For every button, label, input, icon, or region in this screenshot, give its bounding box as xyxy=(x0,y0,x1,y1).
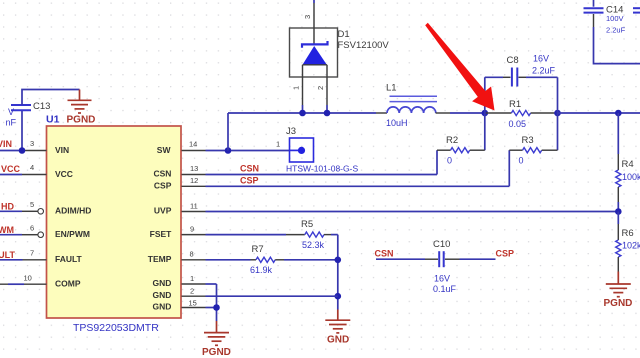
node junction pin2/GND xyxy=(335,293,342,300)
resistor R3 left pin xyxy=(509,149,522,151)
resistor R4 bottom pin xyxy=(617,187,619,202)
svg-text:PGND: PGND xyxy=(202,347,231,358)
connector J3 box xyxy=(290,138,314,162)
red annotation arrow xyxy=(425,23,494,111)
resistor R4 top pin xyxy=(617,154,619,170)
svg-text:3: 3 xyxy=(303,15,312,19)
wire GND net riser xyxy=(337,235,339,310)
resistor R2 zigzag xyxy=(451,148,470,153)
ground PGND bottom symbol xyxy=(204,321,229,345)
pin 6 inversion bubble xyxy=(38,232,44,238)
connector J3 pad dot xyxy=(298,147,305,154)
svg-text:J3: J3 xyxy=(286,126,296,137)
resistor R2 left pin xyxy=(437,149,451,151)
svg-text:FSV12100V: FSV12100V xyxy=(338,40,390,51)
pin 5 stub xyxy=(22,210,38,212)
wire FAULT net stub xyxy=(0,259,23,261)
svg-text:13: 13 xyxy=(190,164,198,173)
resistor R7 right wire xyxy=(284,259,338,261)
op-amp U1 IC body TPS922053DMTR xyxy=(47,126,182,318)
capacitor C10 plates xyxy=(439,251,444,267)
svg-text:0.1uF: 0.1uF xyxy=(433,284,457,294)
svg-text:14: 14 xyxy=(189,140,197,149)
capacitor C8 left pin xyxy=(503,76,511,78)
svg-text:R1: R1 xyxy=(509,99,521,110)
svg-text:102k: 102k xyxy=(622,241,640,251)
resistor R4 bottom wire xyxy=(617,202,619,212)
capacitor C13 plates xyxy=(11,105,31,110)
svg-text:1: 1 xyxy=(190,274,194,283)
capacitor C8 left wire xyxy=(485,76,503,78)
svg-text:10uH: 10uH xyxy=(386,118,408,128)
svg-text:VIN: VIN xyxy=(0,139,12,149)
svg-text:100k: 100k xyxy=(622,172,640,182)
svg-text:TPS922053DMTR: TPS922053DMTR xyxy=(73,322,159,334)
svg-text:D1: D1 xyxy=(338,29,350,40)
svg-text:C8: C8 xyxy=(507,55,519,66)
svg-text:7: 7 xyxy=(30,249,34,258)
wire PGND riser xyxy=(216,284,218,321)
resistor R1 zigzag xyxy=(511,110,530,115)
resistor R6 bottom pin xyxy=(617,257,619,272)
svg-text:nF: nF xyxy=(5,118,16,128)
capacitor C14 bottom pin xyxy=(593,14,595,27)
wire SW riser to bus xyxy=(227,113,229,151)
resistor R7 wire from TEMP xyxy=(206,259,251,261)
diode D1 triangle xyxy=(303,46,327,65)
node junction D1 pin1 xyxy=(299,110,306,117)
wire C10 left xyxy=(376,258,425,260)
wire COMP net stub xyxy=(8,283,24,285)
svg-text:3: 3 xyxy=(30,139,34,148)
svg-text:HD: HD xyxy=(1,202,14,212)
svg-text:2.2uF: 2.2uF xyxy=(606,26,626,35)
wire CSN row xyxy=(206,174,438,176)
svg-text:GND: GND xyxy=(153,290,172,300)
wire CSP row xyxy=(206,185,510,187)
wire L1 left pin xyxy=(376,112,387,114)
pin 3 stub xyxy=(25,150,47,152)
svg-text:UVP: UVP xyxy=(154,206,172,216)
diode D1 body box xyxy=(290,28,338,77)
ground PGND right symbol xyxy=(606,272,631,297)
pin 10 stub xyxy=(0,283,47,285)
svg-text:FAULT: FAULT xyxy=(55,254,83,264)
resistor R4 zigzag xyxy=(616,170,621,187)
pin 8 stub xyxy=(182,259,206,261)
svg-text:52.3k: 52.3k xyxy=(302,240,325,250)
resistor R5 right wire xyxy=(331,234,338,236)
wire ADIM net stub xyxy=(0,210,22,212)
wire C10 right xyxy=(460,258,496,260)
svg-text:1: 1 xyxy=(292,86,301,90)
pin 12 stub xyxy=(182,185,206,187)
svg-text:TEMP: TEMP xyxy=(148,254,172,264)
diode D1 pin 1 wire xyxy=(302,65,304,105)
svg-text:EN/PWM: EN/PWM xyxy=(55,229,90,239)
pin 13 stub xyxy=(182,174,206,176)
svg-text:PGND: PGND xyxy=(604,298,633,309)
wire SW to J3 xyxy=(206,150,290,152)
svg-text:10: 10 xyxy=(24,274,32,283)
wire GND pin15 row xyxy=(206,307,217,309)
node junction UVP/R4 xyxy=(615,208,622,215)
svg-text:VCC: VCC xyxy=(55,169,73,179)
node junction R1 left xyxy=(482,110,489,117)
node junction R1 right xyxy=(554,110,561,117)
pin 9 stub xyxy=(182,234,206,236)
svg-text:0: 0 xyxy=(519,156,524,166)
resistor R7 zigzag xyxy=(256,257,275,262)
resistor R5 wire from FSET xyxy=(206,234,287,236)
svg-text:CSN: CSN xyxy=(240,164,259,174)
svg-text:PGND: PGND xyxy=(67,115,96,126)
svg-text:4: 4 xyxy=(30,163,34,172)
svg-text:VCC: VCC xyxy=(1,164,21,174)
resistor R6 top pin xyxy=(617,224,619,240)
svg-text:5: 5 xyxy=(30,200,34,209)
svg-text:R3: R3 xyxy=(522,135,534,146)
diode D1 anode bar xyxy=(303,64,328,66)
capacitor C8 right riser xyxy=(557,77,559,150)
svg-text:0: 0 xyxy=(447,156,452,166)
ground PGND top-left xyxy=(68,90,92,114)
pin 5 inversion bubble xyxy=(38,209,44,215)
svg-text:L1: L1 xyxy=(386,83,397,94)
svg-text:ULT: ULT xyxy=(0,250,16,260)
svg-text:12: 12 xyxy=(190,176,198,185)
resistor R1 right pin xyxy=(531,112,557,114)
inductor L1 humps xyxy=(387,107,436,113)
capacitor C8 plates xyxy=(512,68,517,87)
resistor R5 left pin xyxy=(286,234,305,236)
node junction SW riser xyxy=(225,147,232,154)
inductor L1 core bars xyxy=(390,96,438,101)
capacitor C8 right pin xyxy=(519,76,527,78)
svg-text:15: 15 xyxy=(189,299,197,308)
svg-text:9: 9 xyxy=(190,225,194,234)
svg-text:11: 11 xyxy=(190,202,198,211)
resistor R5 right pin xyxy=(324,234,331,236)
svg-text:CSN: CSN xyxy=(153,169,171,179)
capacitor C8 right wire xyxy=(526,76,558,78)
resistor R5 zigzag xyxy=(305,232,324,237)
resistor R3 right pin xyxy=(542,149,558,151)
wire C14 down and right xyxy=(594,27,640,64)
svg-text:HTSW-101-08-G-S: HTSW-101-08-G-S xyxy=(286,164,358,174)
resistor R6 top wire xyxy=(617,212,619,225)
svg-text:SW: SW xyxy=(157,145,172,155)
capacitor C8 left riser xyxy=(484,77,486,150)
svg-text:FSET: FSET xyxy=(150,229,173,239)
resistor R2 left riser xyxy=(436,150,438,174)
svg-text:61.9k: 61.9k xyxy=(250,265,273,275)
pin 11 stub xyxy=(182,211,206,213)
svg-text:R2: R2 xyxy=(446,135,458,146)
wire L1 right pin xyxy=(436,112,450,114)
pin 14 stub xyxy=(182,150,206,152)
svg-text:100V: 100V xyxy=(606,14,624,23)
pin 1 stub xyxy=(182,283,206,285)
svg-text:VIN: VIN xyxy=(55,145,69,155)
svg-text:V: V xyxy=(8,107,14,117)
svg-text:6: 6 xyxy=(30,223,34,232)
svg-text:C10: C10 xyxy=(433,239,450,250)
svg-text:16V: 16V xyxy=(434,274,450,284)
svg-text:WM: WM xyxy=(0,225,14,235)
capacitor C13 lower wire xyxy=(21,110,23,151)
svg-text:GND: GND xyxy=(153,278,172,288)
svg-text:CSN: CSN xyxy=(375,249,394,259)
capacitor C14 plates xyxy=(584,8,604,12)
diode D1 schottky cathode bar xyxy=(302,41,328,48)
svg-text:8: 8 xyxy=(190,250,194,259)
node junction R4 tap xyxy=(615,110,622,117)
svg-text:R5: R5 xyxy=(301,219,313,230)
node junction VIN/C13 xyxy=(19,147,26,154)
capacitor C10 right pin xyxy=(445,258,460,260)
resistor R2 right pin xyxy=(470,149,485,151)
ground GND symbol xyxy=(325,310,350,333)
svg-text:2: 2 xyxy=(190,287,194,296)
resistor R7 right pin xyxy=(275,259,284,261)
node junction R7/GND xyxy=(335,257,342,264)
resistor R4 top wire xyxy=(617,113,619,154)
wire main bus left xyxy=(228,112,376,114)
svg-text:GND: GND xyxy=(327,335,349,346)
pin 4 stub xyxy=(22,174,47,176)
wire C13 top to PGND xyxy=(22,90,80,106)
svg-text:C13: C13 xyxy=(33,101,50,112)
wire VCC net stub xyxy=(0,174,22,176)
wire bus right xyxy=(558,112,640,114)
svg-text:CSP: CSP xyxy=(154,181,172,191)
svg-text:16V: 16V xyxy=(533,54,549,64)
svg-text:2.2uF: 2.2uF xyxy=(532,66,556,76)
resistor R1 left pin xyxy=(486,112,511,114)
wire bus L1 to R1 node xyxy=(450,112,485,114)
capacitor C10 left pin xyxy=(425,258,438,260)
node junction D1 pin2 xyxy=(324,110,331,117)
svg-text:U1: U1 xyxy=(46,114,60,126)
capacitor C14 top wire xyxy=(593,0,595,7)
diode D1 pin 2 wire xyxy=(326,65,328,105)
wire GND pin1 row xyxy=(206,283,217,285)
resistor R3 zigzag xyxy=(523,148,542,153)
svg-text:R4: R4 xyxy=(622,159,634,170)
svg-text:COMP: COMP xyxy=(55,278,81,288)
wire GND pin2 row xyxy=(206,295,338,297)
capacitor edge (clipped) plates xyxy=(633,8,640,12)
svg-text:1: 1 xyxy=(276,140,280,149)
svg-text:R7: R7 xyxy=(252,244,264,255)
svg-text:GND: GND xyxy=(153,302,172,312)
svg-text:CSP: CSP xyxy=(496,249,515,259)
svg-text:0.05: 0.05 xyxy=(509,119,527,129)
pin 2 stub xyxy=(182,295,206,297)
pin 7 stub xyxy=(23,259,47,261)
wire EN net stub xyxy=(0,234,22,236)
pin 15 stub xyxy=(182,307,206,309)
resistor R3 left riser xyxy=(508,150,510,186)
svg-text:CSP: CSP xyxy=(240,176,259,186)
wire UVP row xyxy=(206,211,619,213)
pin 6 stub xyxy=(22,234,38,236)
diode D1 pin 3 top wire xyxy=(313,0,315,3)
resistor R7 left pin xyxy=(251,259,257,261)
svg-text:R6: R6 xyxy=(622,228,634,239)
resistor R6 zigzag xyxy=(616,240,621,257)
svg-text:2: 2 xyxy=(316,86,325,90)
node junction pin15/PGND xyxy=(213,304,220,311)
wire VIN net stub xyxy=(0,150,25,152)
connector J3 pin line xyxy=(290,149,302,151)
svg-text:ADIM/HD: ADIM/HD xyxy=(55,205,91,215)
